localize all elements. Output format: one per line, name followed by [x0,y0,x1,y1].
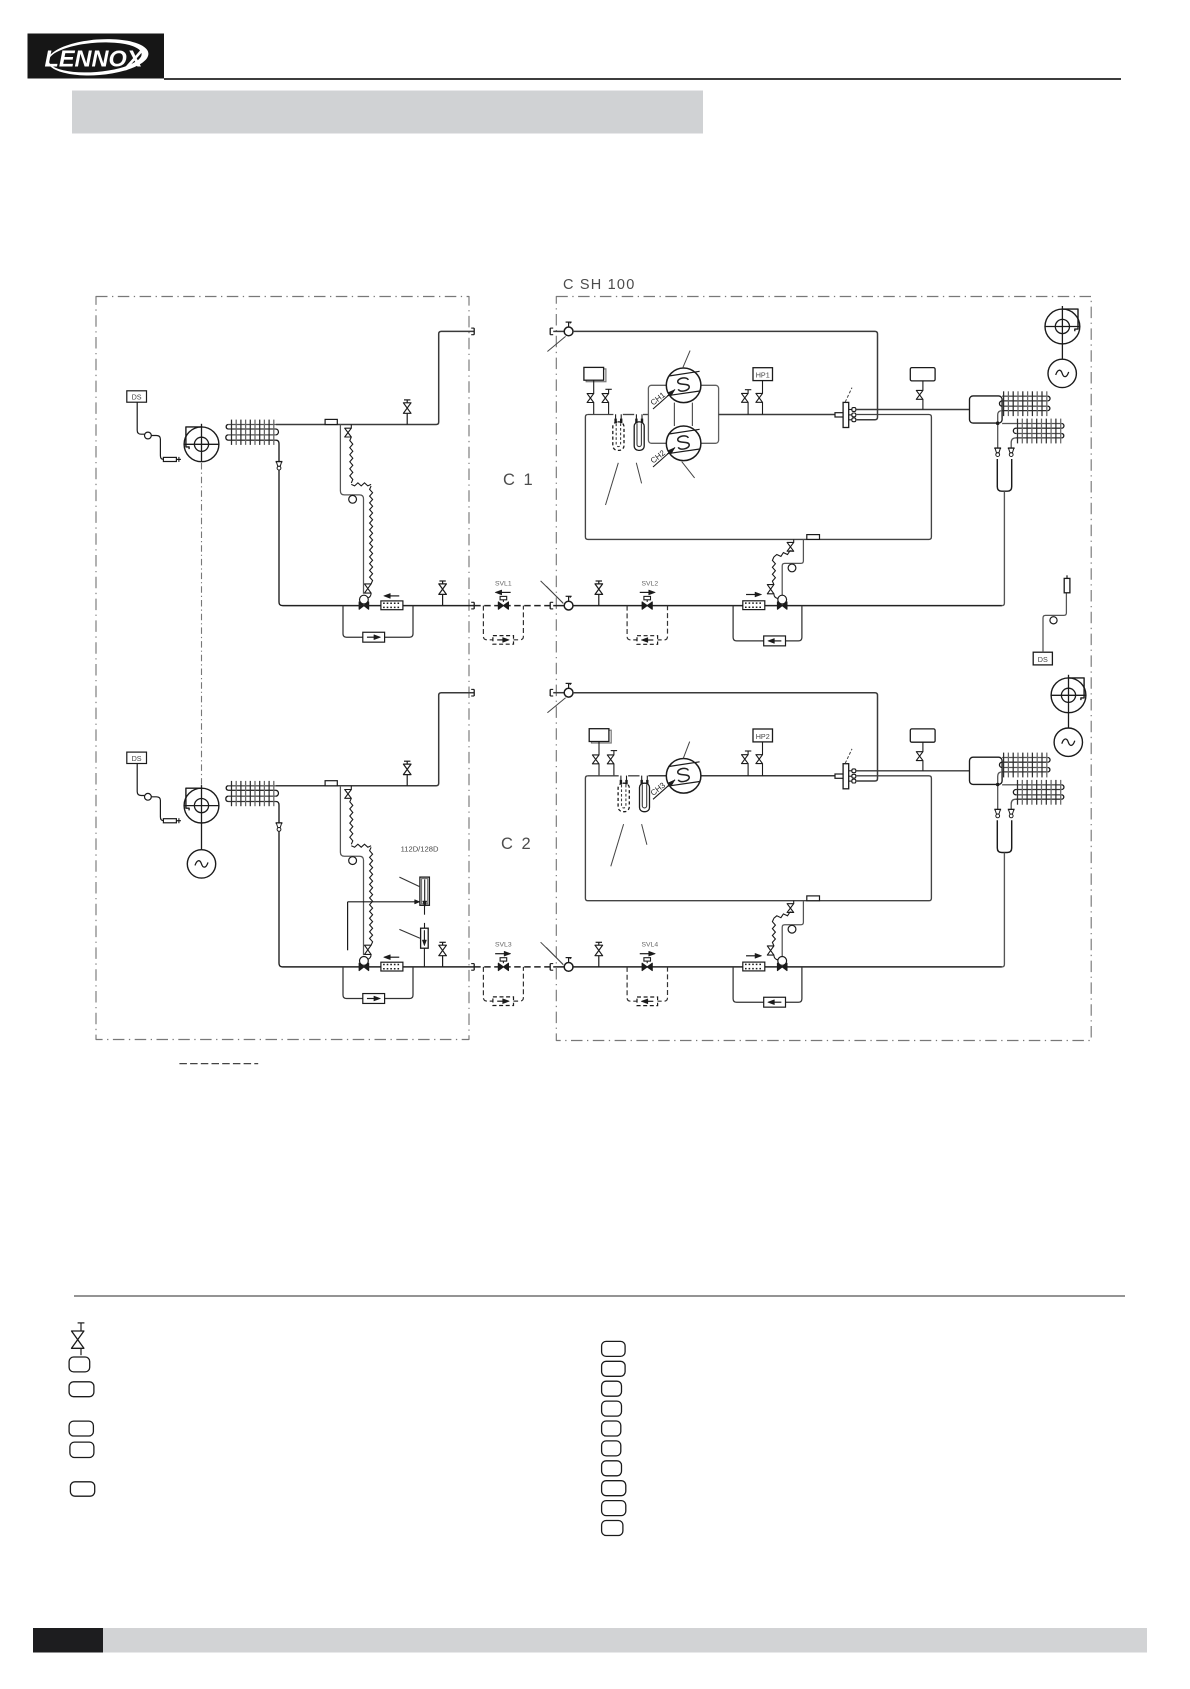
C2 liquid line [283,966,470,968]
legend symbol box 1 [69,1357,90,1372]
SVL3 bypass check valve [493,997,514,1006]
SVL4 dashed bypass loop [627,967,667,1001]
SVL1 flow arrow [495,590,511,595]
legend service valve symbol [72,1323,85,1356]
C1 liquid line [553,605,1002,607]
svg-text:HP1: HP1 [756,371,770,380]
C1 condenser fan motor [1048,344,1076,388]
C2 sight tube leader line [642,824,647,845]
C2 condenser fan [1051,675,1087,713]
C1 suction pipe [276,331,474,424]
C1 discharge distribution manifold [835,402,856,427]
legend designator box 4 [602,1401,622,1416]
solenoid valve SVL1 [498,596,508,609]
C2 muffler shut-off valve [592,742,599,776]
C2 discharge schrader port [742,751,752,776]
C1 suction line union [471,328,474,335]
C1 tank bottom sensor pocket [807,535,820,540]
scroll compressor CH1 [666,368,701,403]
SVL1 bypass check valve [493,636,514,645]
C1 condenser lower feed line [1002,423,1016,425]
legend symbol box 3 [69,1421,93,1436]
C1 suction line service valve [403,400,411,425]
legend designator box 3 [602,1381,622,1396]
C2 condenser inlet header [970,757,1003,784]
compressor CH3 leader line [683,742,689,759]
legend symbol box 2 [69,1382,94,1397]
C2 indoor blower fan [184,785,220,823]
C1 compressor interconnection [674,403,692,426]
legend designator box 2 [602,1361,626,1376]
C2 condenser fan motor [1054,713,1082,757]
C1 TXV sensing bulb [349,495,357,503]
C1 capillary valve 2 [767,585,778,599]
C1 lower coil return drop [1011,438,1016,448]
C1 sight tube leader line [636,463,641,484]
C2 TXV bulb equalizer line [340,786,363,955]
Lennox logo box [28,34,165,80]
C1 strainer leader line [606,463,619,505]
C1 capillary line (flexible) [774,551,794,557]
SVL2 dashed bypass loop [627,606,667,640]
C1 outdoor DS wire [1043,593,1066,652]
C2 suction top run and riser to manifold [573,693,878,781]
C1 indoor coil (evaporator) [226,420,279,445]
C2 receiver outlet downpipe [1002,853,1005,967]
C2 drier flow arrow [746,953,762,958]
C1 distributor funnel 2 [1008,448,1015,456]
C2 filter drier [381,962,403,971]
svg-text:C SH 100: C SH 100 [563,277,635,293]
high pressure switch HP1 box [753,368,773,381]
svg-text:C 1: C 1 [503,471,535,489]
liquid line union at outdoor box [550,602,553,609]
HP2 connection valve [756,742,763,776]
C2 distributor funnel 1 [994,810,1001,818]
C2 liquid shut-off valve [595,942,603,967]
C2 TXV sensing bulb [349,857,357,865]
legend dashed line sample [179,1063,258,1065]
C1 suction muffler [584,367,606,381]
solenoid valve SVL2 [642,596,652,609]
high pressure switch HP2 box [753,729,773,742]
C2 discharge muffler [910,729,935,742]
C2 flow arrow (cooling) [384,955,400,960]
112D/128D component leader 2 [399,929,420,938]
svg-text:DS: DS [132,754,142,763]
C1 coil outlet pipe to liquid line [276,440,283,605]
C1 suction strainer (dashed capsule) [613,414,624,450]
SVL1 leader line [541,581,563,603]
footer bar [103,1628,1147,1653]
C1 liquid entry service valve [564,596,573,610]
C2 suction schrader port [607,751,617,776]
legend designator box 1 [602,1341,626,1356]
C2 bypass check valve [764,997,786,1007]
C1 discharge line [719,414,835,416]
C2 upper coil return drop [998,772,1002,809]
C1 drier flow arrow [746,592,762,597]
C1 thermostatic expansion valve [777,595,787,609]
C1 accumulator tank shell [585,415,931,540]
C1 filter drier [743,601,765,610]
C2 distributor funnel 2 [1008,810,1015,818]
C1 capillary shut-off valve [345,425,352,438]
legend rule [74,1295,1125,1297]
C1 flow arrow (cooling) [384,594,400,599]
C1 upper coil return drop [998,411,1002,448]
C1 muffler shut-off valve [587,380,594,414]
C1 outdoor coil sensor [1064,575,1070,593]
C1 liquid line union [469,602,474,609]
svg-text:LENNOX: LENNOX [45,46,144,72]
svg-text:SVL2: SVL2 [641,580,658,587]
C2 liquid entry leader line [546,948,563,965]
svg-text:SVL4: SVL4 [641,942,658,949]
svg-text:DS: DS [132,393,142,402]
C1 outdoor DS wire grommet [1050,617,1057,624]
C1 TXV check valve bypass loop [733,606,802,641]
C2 condenser coil upper block [999,753,1050,778]
C2 capillary line (flexible) [350,798,353,844]
C2 lower coil return drop [1011,799,1016,809]
C1 defrost sensor DS box and capillary [127,391,181,462]
C2 capillary valve 2 [767,946,778,960]
C2 discharge distribution manifold [835,764,856,789]
C1 suction line entry service valve [553,322,573,336]
C1 liquid shut-off valve [595,581,603,606]
C2 strainer leader line [611,824,624,866]
C2 suction muffler [589,729,611,743]
C2 suction line entry service valve [553,683,573,697]
C2 discharge muffler valve [916,742,923,771]
C1 capillary line (flexible) [350,437,353,483]
SVL3 leader line [541,942,563,964]
compressor CH2 label [649,448,675,468]
C2 tank bottom sensor pocket [807,896,820,901]
C2 manifold leader line [845,749,852,763]
C2 indoor coil (evaporator) [226,781,279,806]
legend designator box 7 [602,1461,622,1476]
C2 liquid line service valve [439,942,447,967]
legend designator box 8 [602,1481,626,1496]
C2 suction union [550,689,553,696]
C1 manifold leader line [845,388,852,402]
C2 condenser lower feed line [1002,784,1016,786]
C2 check valve bypass loop [343,967,413,999]
subcooler sight tube 112D [420,877,430,907]
svg-text:SVL1: SVL1 [495,580,512,587]
C2 suction pipe sensor pocket [325,781,337,786]
SVL4 bypass check valve [637,997,658,1006]
C1 condenser coil lower block [1013,419,1064,444]
C1 capillary valve 2 [365,584,372,598]
outdoor unit CSH 100 dash-dot enclosure [556,297,1091,1041]
solenoid valve SVL4 [642,958,652,971]
SVL4 flow arrow [640,951,656,956]
C1 capillary shut-off valve [787,539,794,551]
C2 oil sight tube (capsule) [640,776,650,812]
line 112D to 128D [424,905,426,928]
C1 liquid receiver [997,459,1011,491]
fan drive shaft (dash-dot) [201,463,203,786]
C1 indoor blower fan [184,424,220,462]
subcooler feed line [348,900,420,951]
liquid line union at outdoor box [550,964,553,971]
C1 TXV bulb equalizer line [782,539,803,595]
legend designator box 10 [602,1521,623,1536]
C1 liquid line [283,605,470,607]
C1 thermostatic expansion valve [359,595,369,609]
C2 liquid line [553,966,1002,968]
C1 filter drier [381,601,403,610]
C2 suction entry leader line [547,698,565,713]
C1 TXV bulb equalizer line [340,425,363,594]
indoor unit dash-dot enclosure [96,297,469,1040]
C2 thermostatic expansion valve [777,957,787,971]
C1 condenser fan [1045,306,1081,344]
legend designator box 6 [602,1441,621,1456]
C2 coil outlet pipe to liquid line [276,802,283,967]
C2 suction line union [471,689,474,696]
C1 discharge muffler valve [916,381,923,410]
compressor CH3 label [649,780,675,800]
C1 oil sight tube (capsule) [634,414,644,450]
C2 condenser feed line [856,770,970,772]
C2 TXV sensing bulb [788,925,796,933]
C1 TXV sensing bulb [788,564,796,572]
C1 liquid line service valve [439,581,447,606]
C2 suction line service valve [403,761,411,786]
scroll compressor CH2 [666,426,701,461]
C1 bypass check valve [363,632,385,642]
C1 suction pipe sensor pocket [325,419,337,424]
C1 compressor mounting frame [648,385,718,443]
legend designator box 5 [602,1421,621,1436]
liquid interconnect dashed line (SVL3) [474,966,550,968]
header rule [164,78,1121,80]
C2 liquid distributor [276,823,283,831]
svg-text:DS: DS [1038,655,1048,664]
legend symbol box 4 [70,1442,94,1457]
C1 bypass check valve [764,636,786,646]
footer page number block [33,1628,103,1653]
SVL2 bypass check valve [637,636,658,645]
C2 capillary shut-off valve [345,786,352,799]
C1 condenser coil upper block [999,391,1050,416]
SVL3 dashed bypass loop [483,967,523,1001]
C2 bypass check valve [363,994,385,1004]
C2 thermostatic expansion valve [359,957,369,971]
C2 capillary valve 2 [365,945,372,959]
C2 condenser coil lower block [1013,780,1064,805]
svg-text:HP2: HP2 [756,732,770,741]
legend designator box 9 [602,1501,626,1516]
check valve 128D [421,928,429,967]
C1 check valve bypass loop [343,606,413,638]
C2 defrost sensor DS box and capillary [127,752,181,823]
compressor CH1 leader line [683,351,691,369]
C1 suction union [550,328,553,335]
liquid interconnect dashed line (SVL1) [474,605,550,607]
C1 suction schrader port [602,389,612,414]
112D/128D component leader 1 [399,877,419,886]
C2 compressor suction/discharge line [648,775,835,777]
C1 outdoor defrost sensor DS box [1033,652,1052,665]
C2 accumulator tank shell [585,776,931,901]
C2 capillary line (flexible) [774,912,794,918]
C1 discharge muffler [910,368,935,381]
C2 suction strainer (dashed capsule) [618,776,629,812]
C1 discharge schrader port [742,390,752,415]
C2 suction pipe [276,693,474,786]
scroll compressor CH3 [666,759,701,794]
C2 liquid line union [469,964,474,971]
C1 distributor funnel 1 [994,448,1001,456]
C2 indoor fan motor [187,823,215,878]
SVL2 flow arrow [640,590,656,595]
title bar (blank gray) [72,91,703,134]
SVL3 flow arrow [495,951,511,956]
C1 suction top run and riser to manifold [573,331,878,419]
svg-text:C 2: C 2 [501,835,533,853]
C1 liquid distributor [276,462,283,470]
C1 liquid entry leader line [546,586,563,603]
C2 liquid receiver [997,820,1011,852]
C2 TXV bulb equalizer line [782,901,803,957]
svg-text:112D/128D: 112D/128D [401,845,439,854]
C2 capillary shut-off valve [787,901,794,913]
svg-text:SVL3: SVL3 [495,942,512,949]
C1 suction entry leader line [547,336,565,351]
C2 filter drier [743,962,765,971]
C1 condenser inlet header [970,396,1003,423]
solenoid valve SVL3 [498,958,508,971]
HP1 connection valve [756,381,763,415]
C2 liquid entry service valve [564,958,573,972]
C1 receiver outlet downpipe [1002,491,1005,605]
legend symbol box 5 [70,1482,94,1496]
compressor CH2 leader line [682,462,695,478]
compressor CH1 label [649,390,675,410]
SVL1 dashed bypass loop [483,606,523,640]
C1 condenser feed line [856,409,970,411]
C2 TXV check valve bypass loop [733,967,802,1002]
